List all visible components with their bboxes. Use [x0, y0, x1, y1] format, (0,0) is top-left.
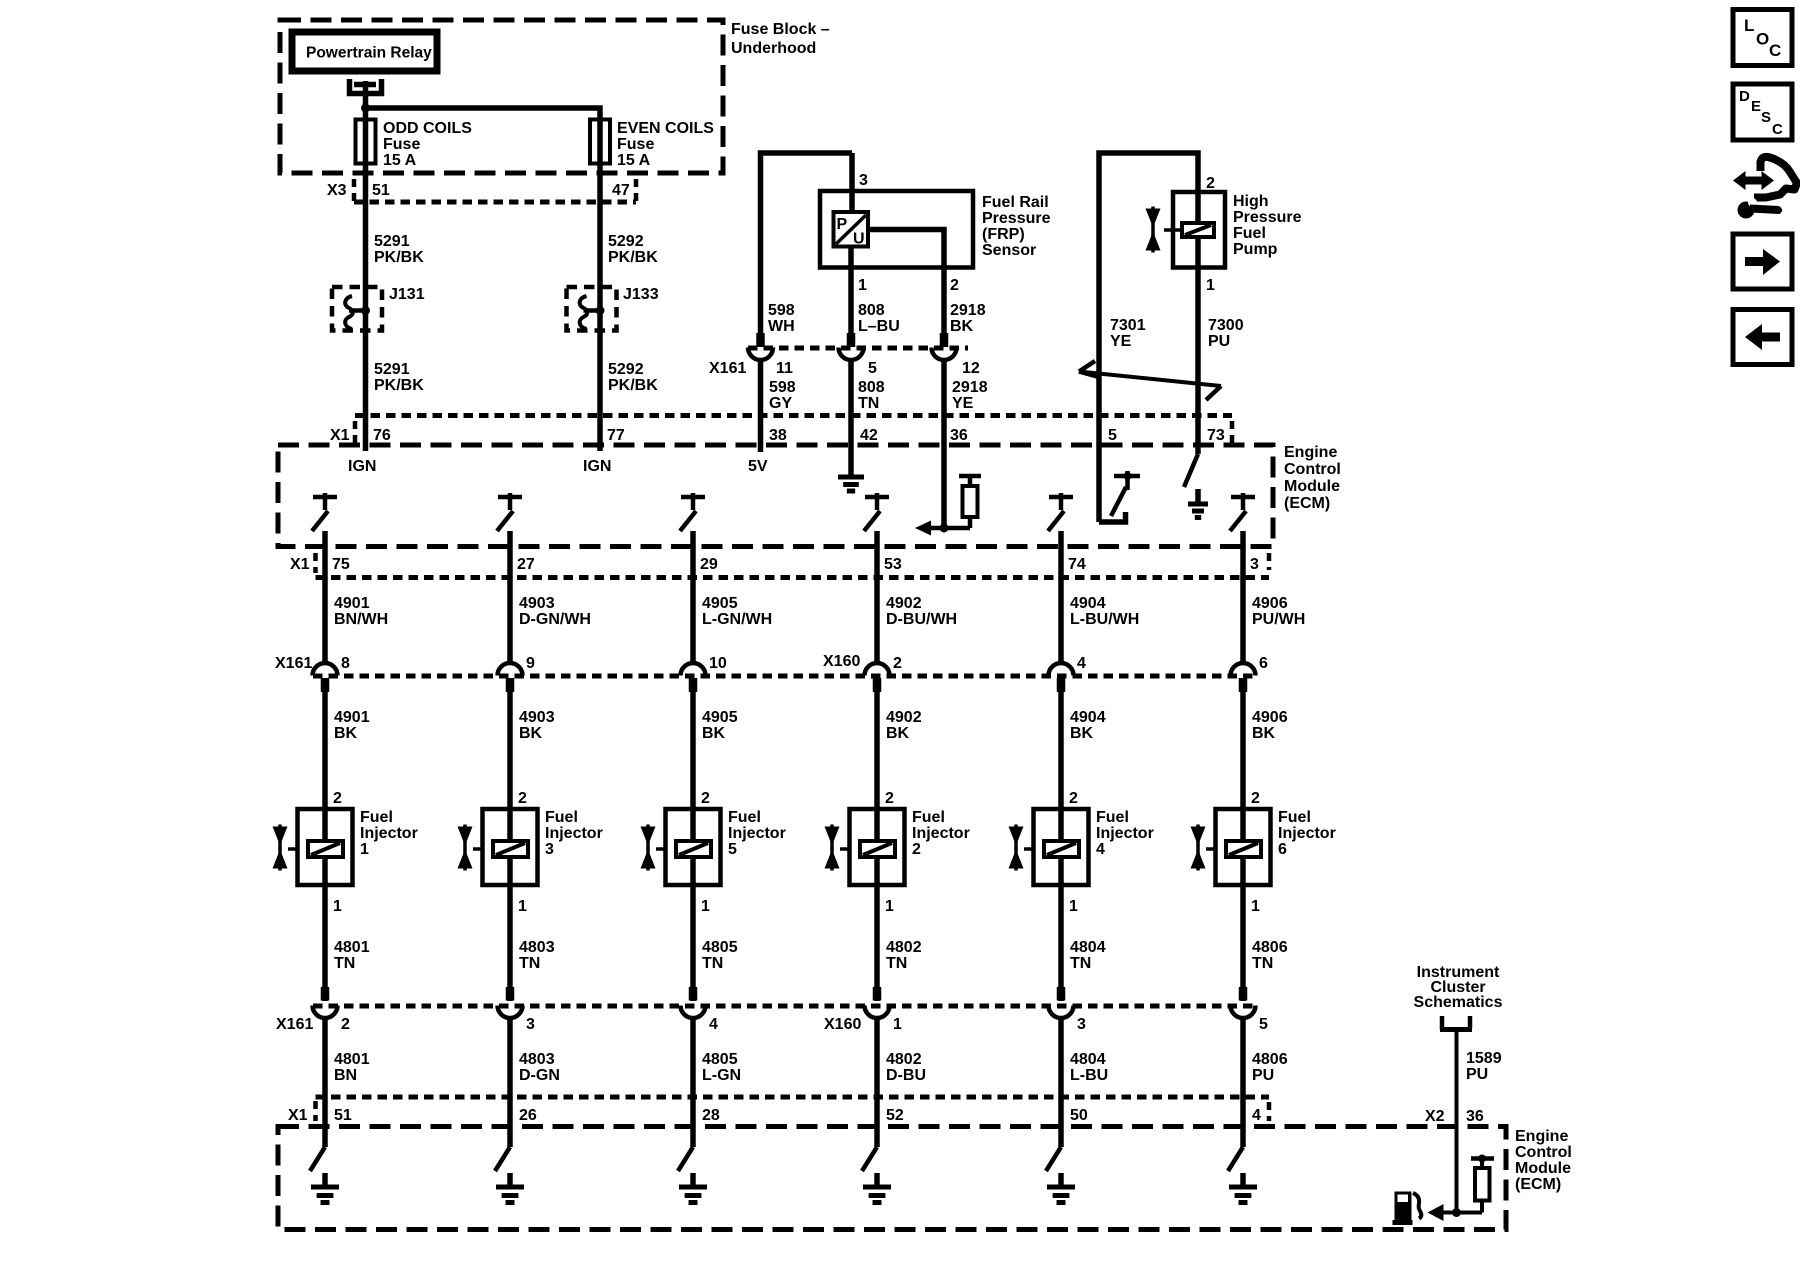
- svg-text:(ECM): (ECM): [1284, 495, 1330, 512]
- svg-text:PU: PU: [1208, 333, 1230, 350]
- icon forward arrow box: [1733, 234, 1792, 289]
- node IGN pin77: [583, 416, 611, 475]
- fuel injector 3: [458, 790, 603, 915]
- wire 4902 D-BU/WH: [877, 578, 957, 665]
- svg-text:4903: 4903: [519, 709, 555, 726]
- connector X161 row1 line: [709, 348, 968, 377]
- connector X1 row3 line: [288, 1097, 1269, 1124]
- connector X161/X160 row3 line: [276, 1006, 1256, 1033]
- svg-text:5292: 5292: [608, 233, 644, 250]
- svg-text:BK: BK: [702, 725, 726, 742]
- svg-text:27: 27: [517, 556, 535, 573]
- icon LOC box: [1733, 10, 1792, 66]
- svg-text:PU: PU: [1466, 1066, 1488, 1083]
- fuel pump icon: [1393, 1192, 1422, 1226]
- svg-text:Sensor: Sensor: [982, 242, 1036, 259]
- ECM label top: [1284, 444, 1341, 512]
- svg-text:C: C: [1769, 41, 1781, 60]
- svg-text:1: 1: [518, 898, 527, 915]
- svg-text:4902: 4902: [886, 595, 922, 612]
- svg-text:10: 10: [709, 655, 727, 672]
- svg-text:TN: TN: [702, 955, 723, 972]
- svg-text:26: 26: [519, 1107, 537, 1124]
- svg-text:YE: YE: [1110, 333, 1132, 350]
- svg-text:4906: 4906: [1252, 595, 1288, 612]
- svg-text:BK: BK: [334, 725, 358, 742]
- svg-text:7300: 7300: [1208, 317, 1244, 334]
- svg-text:2918: 2918: [950, 302, 986, 319]
- svg-text:4802: 4802: [886, 1051, 922, 1068]
- fuel injector 4: [1009, 790, 1154, 915]
- X1 pin 5 label: [1108, 427, 1117, 444]
- ECM box bottom: [278, 1127, 1506, 1230]
- wire 5292 PK/BK lower: [600, 287, 658, 416]
- svg-text:15 A: 15 A: [617, 152, 651, 169]
- connector X3 row: [327, 179, 636, 203]
- svg-text:77: 77: [607, 427, 625, 444]
- svg-text:3: 3: [1250, 556, 1259, 573]
- fuse F2 EVEN COILS: [590, 120, 714, 170]
- X161/X160 row3 pin 4 terminal col3: [681, 987, 719, 1033]
- X161/X160 row3 pin 3 terminal col5: [1049, 987, 1087, 1033]
- X1 pin 38 label: [769, 427, 787, 444]
- wire 4806 TN: [1243, 885, 1288, 1001]
- X161/X160 row2 pin 6 terminal col6: [1231, 655, 1269, 692]
- X1 pin 29 label col3: [700, 556, 718, 573]
- svg-text:1: 1: [1206, 277, 1215, 294]
- ECM ground switch col4: [862, 1097, 891, 1203]
- svg-text:PU: PU: [1252, 1067, 1274, 1084]
- svg-text:High: High: [1233, 193, 1269, 210]
- svg-text:P: P: [837, 216, 848, 233]
- X161/X160 row2 pin 8 terminal col1: [313, 655, 351, 692]
- svg-text:E: E: [1751, 98, 1761, 115]
- svg-text:47: 47: [612, 182, 630, 199]
- wire 4901 BN/WH: [325, 578, 388, 665]
- svg-text:4803: 4803: [519, 1051, 555, 1068]
- svg-text:X3: X3: [327, 182, 347, 199]
- svg-text:8: 8: [341, 655, 350, 672]
- wire 4905 BK: [693, 690, 738, 809]
- svg-text:Injector: Injector: [728, 825, 786, 842]
- wire relay to even fuse: [366, 108, 601, 120]
- svg-text:2: 2: [1206, 175, 1215, 192]
- svg-text:2: 2: [701, 790, 710, 807]
- svg-text:Control: Control: [1284, 461, 1341, 478]
- svg-text:2: 2: [893, 655, 902, 672]
- svg-text:15 A: 15 A: [383, 152, 417, 169]
- svg-text:4806: 4806: [1252, 1051, 1288, 1068]
- svg-text:3: 3: [526, 1016, 535, 1033]
- svg-text:Fuel: Fuel: [545, 809, 578, 826]
- wire 4801 TN: [325, 885, 370, 1001]
- X1 pin 50 label col5: [1070, 1107, 1088, 1124]
- svg-text:2: 2: [950, 277, 959, 294]
- splice J133: [567, 286, 659, 331]
- svg-text:Control: Control: [1515, 1144, 1572, 1161]
- svg-text:TN: TN: [886, 955, 907, 972]
- svg-text:1: 1: [1251, 898, 1260, 915]
- svg-text:11: 11: [776, 360, 793, 377]
- X1 pin 4 label col6: [1252, 1107, 1261, 1124]
- svg-text:Fuel: Fuel: [360, 809, 393, 826]
- svg-text:X1: X1: [330, 427, 350, 444]
- X1 pin 76 label: [373, 427, 391, 444]
- ECM switch pin5: [1099, 471, 1140, 522]
- wire 1589 PU: [1457, 1030, 1502, 1213]
- wire 4802 D-BU: [877, 1018, 926, 1097]
- icon back arrow box: [1733, 310, 1792, 365]
- X1 pin 73 label: [1207, 427, 1225, 444]
- node IGN pin76: [348, 416, 376, 475]
- wire pin36 to comparator: [940, 416, 949, 533]
- wire 4904 L-BU/WH: [1061, 578, 1139, 665]
- svg-text:C: C: [1772, 121, 1783, 138]
- svg-text:5292: 5292: [608, 361, 644, 378]
- svg-text:ODD COILS: ODD COILS: [383, 120, 472, 137]
- wire 4904 BK: [1061, 690, 1106, 809]
- svg-text:808: 808: [858, 302, 885, 319]
- svg-text:2: 2: [885, 790, 894, 807]
- svg-text:TN: TN: [858, 395, 879, 412]
- ECM ground switch col2: [495, 1097, 524, 1203]
- svg-text:J131: J131: [389, 286, 425, 303]
- svg-text:74: 74: [1068, 556, 1086, 573]
- X2 pin 36 label: [1425, 1108, 1484, 1125]
- X1 pin 26 label col2: [519, 1107, 537, 1124]
- splice J131: [332, 286, 425, 331]
- wire 4801 BN: [325, 1018, 370, 1097]
- connector X1 row2 line: [290, 553, 1269, 578]
- wire 4903 BK: [510, 690, 555, 809]
- svg-text:1: 1: [893, 1016, 902, 1033]
- icon flag double arrow tool: [1733, 157, 1797, 219]
- svg-text:75: 75: [332, 556, 350, 573]
- svg-text:L: L: [1744, 16, 1754, 35]
- svg-text:4904: 4904: [1070, 709, 1106, 726]
- svg-text:38: 38: [769, 427, 787, 444]
- svg-text:L-GN: L-GN: [702, 1067, 741, 1084]
- wire 7300 PU: [1198, 267, 1244, 454]
- svg-text:1: 1: [1069, 898, 1078, 915]
- ECM driver switch col4: [864, 493, 889, 578]
- svg-text:Pump: Pump: [1233, 241, 1278, 258]
- svg-text:Fuel: Fuel: [1233, 225, 1266, 242]
- svg-text:2: 2: [912, 841, 921, 858]
- svg-text:D: D: [1739, 88, 1750, 105]
- svg-text:28: 28: [702, 1107, 720, 1124]
- svg-text:Fuel: Fuel: [1096, 809, 1129, 826]
- svg-text:Injector: Injector: [545, 825, 603, 842]
- fuel level signal arrow: [1428, 1204, 1444, 1221]
- svg-text:4804: 4804: [1070, 1051, 1106, 1068]
- svg-text:2918: 2918: [952, 379, 988, 396]
- X161/X160 row2 pin 2 terminal col4: [865, 655, 903, 692]
- svg-text:D-BU: D-BU: [886, 1067, 926, 1084]
- svg-text:BN: BN: [334, 1067, 357, 1084]
- svg-text:4904: 4904: [1070, 595, 1106, 612]
- wire 4906 PU/WH: [1243, 578, 1305, 665]
- svg-text:4806: 4806: [1252, 939, 1288, 956]
- wire 4805 TN: [693, 885, 738, 1001]
- svg-text:Pressure: Pressure: [1233, 209, 1302, 226]
- svg-text:1: 1: [360, 841, 369, 858]
- svg-text:X161: X161: [276, 1016, 313, 1033]
- X161/X160 row3 pin 2 terminal col1: [313, 987, 351, 1033]
- svg-text:TN: TN: [1070, 955, 1091, 972]
- fuel injector 2: [825, 790, 970, 915]
- svg-text:7301: 7301: [1110, 317, 1146, 334]
- ECM driver switch col6: [1230, 493, 1255, 578]
- svg-text:50: 50: [1070, 1107, 1088, 1124]
- svg-text:4: 4: [1077, 655, 1086, 672]
- svg-text:L–BU: L–BU: [858, 318, 900, 335]
- svg-text:BN/WH: BN/WH: [334, 611, 388, 628]
- svg-text:Schematics: Schematics: [1414, 994, 1503, 1011]
- svg-text:D-GN: D-GN: [519, 1067, 560, 1084]
- svg-text:36: 36: [1466, 1108, 1484, 1125]
- svg-text:4905: 4905: [702, 595, 738, 612]
- svg-text:Module: Module: [1284, 478, 1340, 495]
- svg-text:4805: 4805: [702, 1051, 738, 1068]
- wire 4805 L-GN: [693, 1018, 741, 1097]
- pullup resistor pin36: [944, 476, 981, 528]
- svg-text:5: 5: [728, 841, 737, 858]
- svg-text:1: 1: [885, 898, 894, 915]
- svg-text:42: 42: [860, 427, 878, 444]
- svg-text:X160: X160: [823, 653, 860, 670]
- svg-text:6: 6: [1278, 841, 1287, 858]
- svg-text:Engine: Engine: [1515, 1128, 1568, 1145]
- svg-text:BK: BK: [886, 725, 910, 742]
- FRP sensor P/U transducer: [834, 212, 869, 248]
- svg-text:4901: 4901: [334, 709, 370, 726]
- svg-text:U: U: [853, 231, 865, 248]
- wire 4902 BK: [877, 690, 922, 809]
- svg-text:Injector: Injector: [1096, 825, 1154, 842]
- svg-text:5: 5: [868, 360, 877, 377]
- svg-text:D-BU/WH: D-BU/WH: [886, 611, 957, 628]
- svg-text:1: 1: [333, 898, 342, 915]
- X1 pin 36 label: [950, 427, 968, 444]
- svg-text:808: 808: [858, 379, 885, 396]
- FRP sensor box: [820, 191, 973, 268]
- X1 pin 52 label col4: [886, 1107, 904, 1124]
- wire relay to odd fuse: [363, 108, 369, 120]
- X1 pin 51 label col1: [334, 1107, 352, 1124]
- svg-text:5291: 5291: [374, 233, 410, 250]
- svg-text:O: O: [1756, 30, 1769, 49]
- svg-text:3: 3: [545, 841, 554, 858]
- wire 4903 D-GN/WH: [510, 578, 591, 665]
- FRP pin 2 wire 2918 BK: [868, 230, 986, 336]
- svg-text:4902: 4902: [886, 709, 922, 726]
- svg-text:GY: GY: [769, 395, 792, 412]
- wire 5291 PK/BK upper: [366, 163, 425, 287]
- fuel injector 1: [273, 790, 418, 915]
- svg-text:4: 4: [1096, 841, 1105, 858]
- FRP sensor label: [982, 194, 1051, 259]
- wire 4901 BK: [325, 690, 370, 809]
- svg-text:598: 598: [769, 379, 796, 396]
- svg-text:X160: X160: [824, 1016, 861, 1033]
- svg-text:X1: X1: [290, 556, 310, 573]
- svg-text:(ECM): (ECM): [1515, 1176, 1561, 1193]
- svg-text:TN: TN: [334, 955, 355, 972]
- svg-text:4901: 4901: [334, 595, 370, 612]
- svg-text:2: 2: [333, 790, 342, 807]
- X1 pin 53 label col4: [884, 556, 902, 573]
- svg-text:BK: BK: [1252, 725, 1276, 742]
- svg-text:PK/BK: PK/BK: [374, 249, 424, 266]
- svg-text:1: 1: [858, 277, 867, 294]
- FRP pin 1 wire 808 L-BU: [851, 247, 900, 336]
- fuel pump label: [1233, 193, 1302, 258]
- fuse block label: [731, 21, 830, 57]
- svg-text:73: 73: [1207, 427, 1225, 444]
- svg-text:2: 2: [1069, 790, 1078, 807]
- off-page connector symbol: [1440, 1016, 1472, 1030]
- fuse block underhood dashed box: [280, 20, 723, 173]
- svg-text:TN: TN: [1252, 955, 1273, 972]
- wire 7301 YE: [1099, 153, 1198, 522]
- svg-text:36: 36: [950, 427, 968, 444]
- svg-text:12: 12: [962, 360, 980, 377]
- fuel pump pin 2 label: [1206, 175, 1215, 192]
- svg-text:51: 51: [334, 1107, 352, 1124]
- svg-text:BK: BK: [519, 725, 543, 742]
- svg-text:3: 3: [1077, 1016, 1086, 1033]
- wire 4803 TN: [510, 885, 555, 1001]
- signal arrow pin36: [915, 521, 944, 536]
- svg-text:2: 2: [1251, 790, 1260, 807]
- wire 4802 TN: [877, 885, 922, 1001]
- ECM label bottom: [1515, 1128, 1572, 1193]
- svg-text:L-GN/WH: L-GN/WH: [702, 611, 772, 628]
- ECM driver switch col3: [680, 493, 705, 578]
- svg-text:Fuel: Fuel: [728, 809, 761, 826]
- ECM ground switch col1: [310, 1097, 339, 1203]
- svg-text:598: 598: [768, 302, 795, 319]
- X161/X160 row2 pin 10 terminal col3: [681, 655, 727, 692]
- svg-text:1: 1: [701, 898, 710, 915]
- fuel injector 6: [1191, 790, 1336, 915]
- svg-text:5V: 5V: [748, 458, 768, 475]
- wire 5291 PK/BK lower: [366, 287, 425, 416]
- svg-text:X161: X161: [275, 655, 312, 672]
- X161/X160 row2 pin 4 terminal col5: [1049, 655, 1087, 692]
- svg-text:S: S: [1761, 109, 1771, 126]
- svg-text:Fuse Block –: Fuse Block –: [731, 21, 830, 38]
- X1 pin 3 label col6: [1250, 556, 1259, 573]
- svg-text:TN: TN: [519, 955, 540, 972]
- svg-text:EVEN COILS: EVEN COILS: [617, 120, 714, 137]
- X1 pin 28 label col3: [702, 1107, 720, 1124]
- svg-text:Fuel: Fuel: [1278, 809, 1311, 826]
- svg-text:4903: 4903: [519, 595, 555, 612]
- X161/X160 row3 pin 1 terminal col4: [865, 987, 903, 1033]
- fuel pump solenoid: [1164, 223, 1214, 237]
- connector X161/X160 row2 line: [275, 653, 1256, 676]
- connector X1 row1 line: [330, 416, 1232, 447]
- X161/X160 row3 pin 3 terminal col2: [498, 987, 536, 1033]
- svg-text:53: 53: [884, 556, 902, 573]
- svg-text:IGN: IGN: [348, 458, 376, 475]
- fuel level signal wire: [1443, 1208, 1482, 1217]
- svg-text:Engine: Engine: [1284, 444, 1337, 461]
- svg-text:6: 6: [1259, 655, 1268, 672]
- X1 pin 42 label: [860, 427, 878, 444]
- svg-text:4: 4: [1252, 1107, 1261, 1124]
- ECM ground switch col3: [678, 1097, 707, 1203]
- svg-text:3: 3: [859, 172, 868, 189]
- svg-text:4802: 4802: [886, 939, 922, 956]
- svg-text:4905: 4905: [702, 709, 738, 726]
- node 5V pin38: [748, 416, 768, 475]
- wire 4905 L-GN/WH: [693, 578, 772, 665]
- relay K powertrain label box: [292, 32, 437, 71]
- X161/X160 row3 pin 5 terminal col6: [1231, 987, 1269, 1033]
- svg-text:WH: WH: [768, 318, 795, 335]
- relay contact symbol: [350, 79, 382, 108]
- svg-text:1589: 1589: [1466, 1050, 1502, 1067]
- ECM ground switch col6: [1228, 1097, 1257, 1203]
- harness crossing arrow: [1079, 361, 1221, 400]
- ECM driver switch col5: [1048, 493, 1073, 578]
- svg-text:(FRP): (FRP): [982, 226, 1025, 243]
- X161 pin 5 terminal: [839, 333, 878, 377]
- svg-text:5: 5: [1108, 427, 1117, 444]
- svg-text:PK/BK: PK/BK: [608, 249, 658, 266]
- svg-text:BK: BK: [1070, 725, 1094, 742]
- X1 pin 75 label col1: [332, 556, 350, 573]
- svg-text:4801: 4801: [334, 939, 370, 956]
- svg-text:YE: YE: [952, 395, 974, 412]
- svg-text:4803: 4803: [519, 939, 555, 956]
- fuse F1 ODD COILS: [356, 120, 473, 170]
- X1 pin 27 label col2: [517, 556, 535, 573]
- svg-text:X1: X1: [288, 1107, 308, 1124]
- ground pin42: [838, 416, 864, 491]
- wire 4804 L-BU: [1061, 1018, 1108, 1097]
- svg-text:Underhood: Underhood: [731, 40, 816, 57]
- svg-text:4: 4: [709, 1016, 718, 1033]
- svg-text:IGN: IGN: [583, 458, 611, 475]
- svg-text:4805: 4805: [702, 939, 738, 956]
- svg-text:Fuse: Fuse: [383, 136, 420, 153]
- wire 808 TN: [851, 360, 885, 416]
- svg-text:Module: Module: [1515, 1160, 1571, 1177]
- ECM pullup resistor bottom: [1471, 1155, 1494, 1213]
- svg-text:52: 52: [886, 1107, 904, 1124]
- svg-text:Pressure: Pressure: [982, 210, 1051, 227]
- X161 pin 12 terminal: [932, 333, 980, 377]
- svg-text:Fuel Rail: Fuel Rail: [982, 194, 1049, 211]
- svg-text:Injector: Injector: [1278, 825, 1336, 842]
- svg-text:2: 2: [341, 1016, 350, 1033]
- wire 2918 YE: [944, 360, 988, 416]
- svg-text:PK/BK: PK/BK: [608, 377, 658, 394]
- ECM driver switch col1: [312, 493, 337, 578]
- FRP sensor pin 3 wire: [852, 153, 868, 212]
- svg-text:76: 76: [373, 427, 391, 444]
- svg-text:L-BU/WH: L-BU/WH: [1070, 611, 1139, 628]
- wire 598 GY: [761, 360, 796, 416]
- svg-text:Powertrain Relay: Powertrain Relay: [306, 45, 432, 62]
- svg-text:51: 51: [372, 182, 390, 199]
- X161/X160 row2 pin 9 terminal col2: [498, 655, 536, 692]
- svg-text:Injector: Injector: [912, 825, 970, 842]
